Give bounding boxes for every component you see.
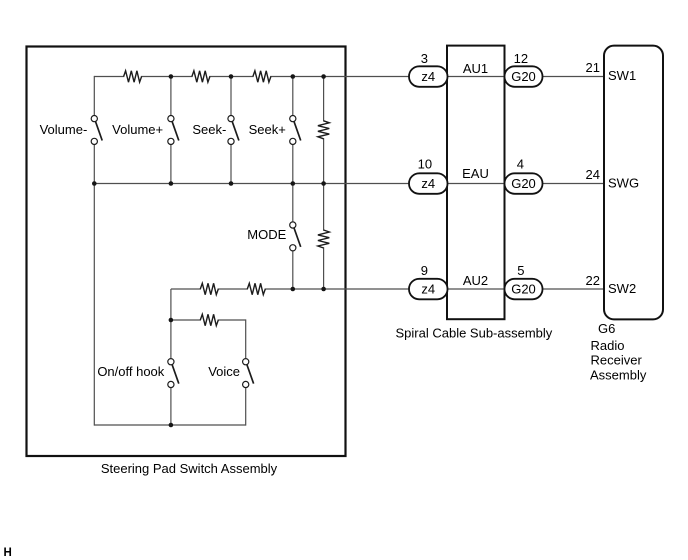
svg-text:Spiral Cable Sub-assembly: Spiral Cable Sub-assembly <box>396 326 553 341</box>
connector G20 pin 5 <box>505 279 543 300</box>
resistor R3 (Seek- / Seek+) <box>253 70 271 84</box>
wire MODE column <box>292 184 294 290</box>
wire inside spiral cable row3 <box>447 288 505 290</box>
svg-text:Seek+: Seek+ <box>249 122 286 137</box>
connector z4 pin 9 <box>409 279 448 300</box>
wire inside spiral cable row2 <box>447 183 505 185</box>
wire row2 (EAU net) <box>94 183 409 185</box>
wire inside spiral cable row1 <box>447 76 505 78</box>
svg-text:12: 12 <box>514 51 528 66</box>
wire row3 (AU2 net) <box>171 288 410 290</box>
connector z4 pin 3 <box>409 66 448 87</box>
svg-text:24: 24 <box>586 167 600 182</box>
wire left column down <box>93 184 95 426</box>
resistor R8 (loop) <box>200 313 218 327</box>
junction row2/resistor col <box>321 181 326 186</box>
svg-text:Steering Pad Switch Assembly: Steering Pad Switch Assembly <box>101 461 278 476</box>
junction bottom rail/On-off col <box>169 423 174 428</box>
svg-text:4: 4 <box>517 157 524 172</box>
svg-text:Seek-: Seek- <box>192 122 226 137</box>
junction loop top/On-off col <box>169 318 174 323</box>
resistor R7 (row3 right) <box>247 282 265 296</box>
svg-text:z4: z4 <box>421 176 435 191</box>
wire G20-SWG <box>543 183 605 185</box>
svg-text:21: 21 <box>586 60 600 75</box>
svg-text:G20: G20 <box>511 281 536 296</box>
junction row3/MODE <box>291 287 296 292</box>
svg-text:SW2: SW2 <box>608 281 636 296</box>
resistor R2 (Volume+ / Seek-) <box>192 70 210 84</box>
wire Voice column <box>245 319 247 425</box>
svg-text:SWG: SWG <box>608 176 639 191</box>
wire Seek- column <box>230 76 232 184</box>
svg-text:Receiver: Receiver <box>591 353 643 368</box>
resistor R5 (vertical lower) <box>317 230 331 248</box>
junction row1/resistor col <box>321 74 326 79</box>
svg-text:Volume-: Volume- <box>40 122 88 137</box>
junction row3/resistor col <box>321 287 326 292</box>
wire loop top <box>171 319 246 321</box>
wire On/off hook column <box>170 289 172 426</box>
wire G20-SW2 <box>543 288 605 290</box>
switch Seek+ <box>290 116 301 145</box>
svg-text:z4: z4 <box>421 281 435 296</box>
junction row2/Seek- <box>229 181 234 186</box>
svg-text:9: 9 <box>421 263 428 278</box>
box: G6 Radio Receiver Assembly <box>604 46 663 320</box>
switch Volume+ <box>168 116 179 145</box>
svg-text:AU1: AU1 <box>463 61 488 76</box>
wire resistor column lower <box>323 184 325 290</box>
svg-text:Voice: Voice <box>208 364 240 379</box>
wire resistor column upper <box>323 77 325 184</box>
svg-text:G20: G20 <box>511 176 536 191</box>
junction row1/Seek- <box>229 74 234 79</box>
switch MODE <box>290 222 301 251</box>
svg-text:3: 3 <box>421 51 428 66</box>
svg-text:Radio: Radio <box>591 338 625 353</box>
wire Seek+ column <box>292 76 294 184</box>
junction row1/Volume+ <box>169 74 174 79</box>
svg-text:Volume+: Volume+ <box>112 122 163 137</box>
svg-text:G20: G20 <box>511 69 536 84</box>
switch Voice <box>243 359 254 388</box>
svg-text:10: 10 <box>418 157 432 172</box>
wire row1 (AU1 net) <box>94 76 409 78</box>
switch gaps <box>90 115 99 145</box>
svg-text:z4: z4 <box>421 69 435 84</box>
junction row1/Seek+ <box>291 74 296 79</box>
junction row2/left col <box>92 181 97 186</box>
svg-text:H: H <box>4 547 12 559</box>
box: Steering Pad Switch Assembly <box>27 47 346 457</box>
svg-text:G6: G6 <box>598 321 615 336</box>
switch Seek- <box>228 116 239 145</box>
svg-text:Assembly: Assembly <box>590 368 647 383</box>
svg-text:On/off hook: On/off hook <box>97 364 164 379</box>
connector G20 pin 4 <box>505 173 543 194</box>
resistor R1 (Volume- / Volume+) <box>124 70 142 84</box>
wire AU1 inside <box>448 76 505 78</box>
switch On/off hook <box>168 359 179 388</box>
wire Volume+ column <box>170 76 172 184</box>
svg-text:22: 22 <box>586 273 600 288</box>
resistor R4 (vertical upper) <box>317 121 331 139</box>
switch Volume- <box>91 116 102 145</box>
wire EAU inside <box>448 183 505 185</box>
svg-text:SW1: SW1 <box>608 68 636 83</box>
connector G20 pin 12 <box>505 66 543 87</box>
junction row2/MODE <box>291 181 296 186</box>
svg-text:5: 5 <box>517 263 524 278</box>
box: Spiral Cable Sub-assembly (AU1/EAU/AU2) <box>447 46 505 320</box>
wire G20-SW1 <box>543 76 605 78</box>
connector z4 pin 10 <box>409 173 448 194</box>
wire Volume- column top <box>93 76 95 184</box>
svg-text:EAU: EAU <box>462 166 489 181</box>
resistor R6 (row3 left) <box>200 282 218 296</box>
wire AU2 inside <box>448 288 505 290</box>
junction row2/Volume+ <box>169 181 174 186</box>
svg-text:AU2: AU2 <box>463 273 488 288</box>
svg-text:MODE: MODE <box>247 227 286 242</box>
wire bottom rail <box>94 424 245 426</box>
